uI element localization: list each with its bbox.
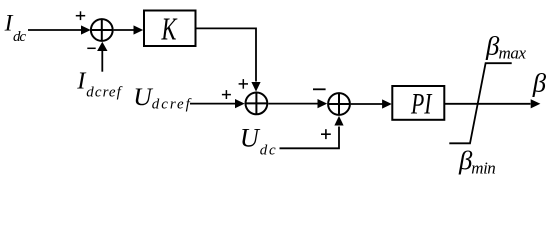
svg-text:dc: dc xyxy=(260,143,276,159)
svg-text:min: min xyxy=(471,158,496,177)
svg-text:U: U xyxy=(133,82,153,111)
svg-text:dc: dc xyxy=(13,29,26,45)
svg-text:U: U xyxy=(240,124,261,153)
svg-text:dcref: dcref xyxy=(86,85,122,101)
svg-text:dcref: dcref xyxy=(152,96,192,112)
svg-text:PI: PI xyxy=(410,88,432,120)
svg-text:β: β xyxy=(532,67,547,97)
svg-text:K: K xyxy=(161,12,178,47)
svg-text:max: max xyxy=(499,43,527,62)
